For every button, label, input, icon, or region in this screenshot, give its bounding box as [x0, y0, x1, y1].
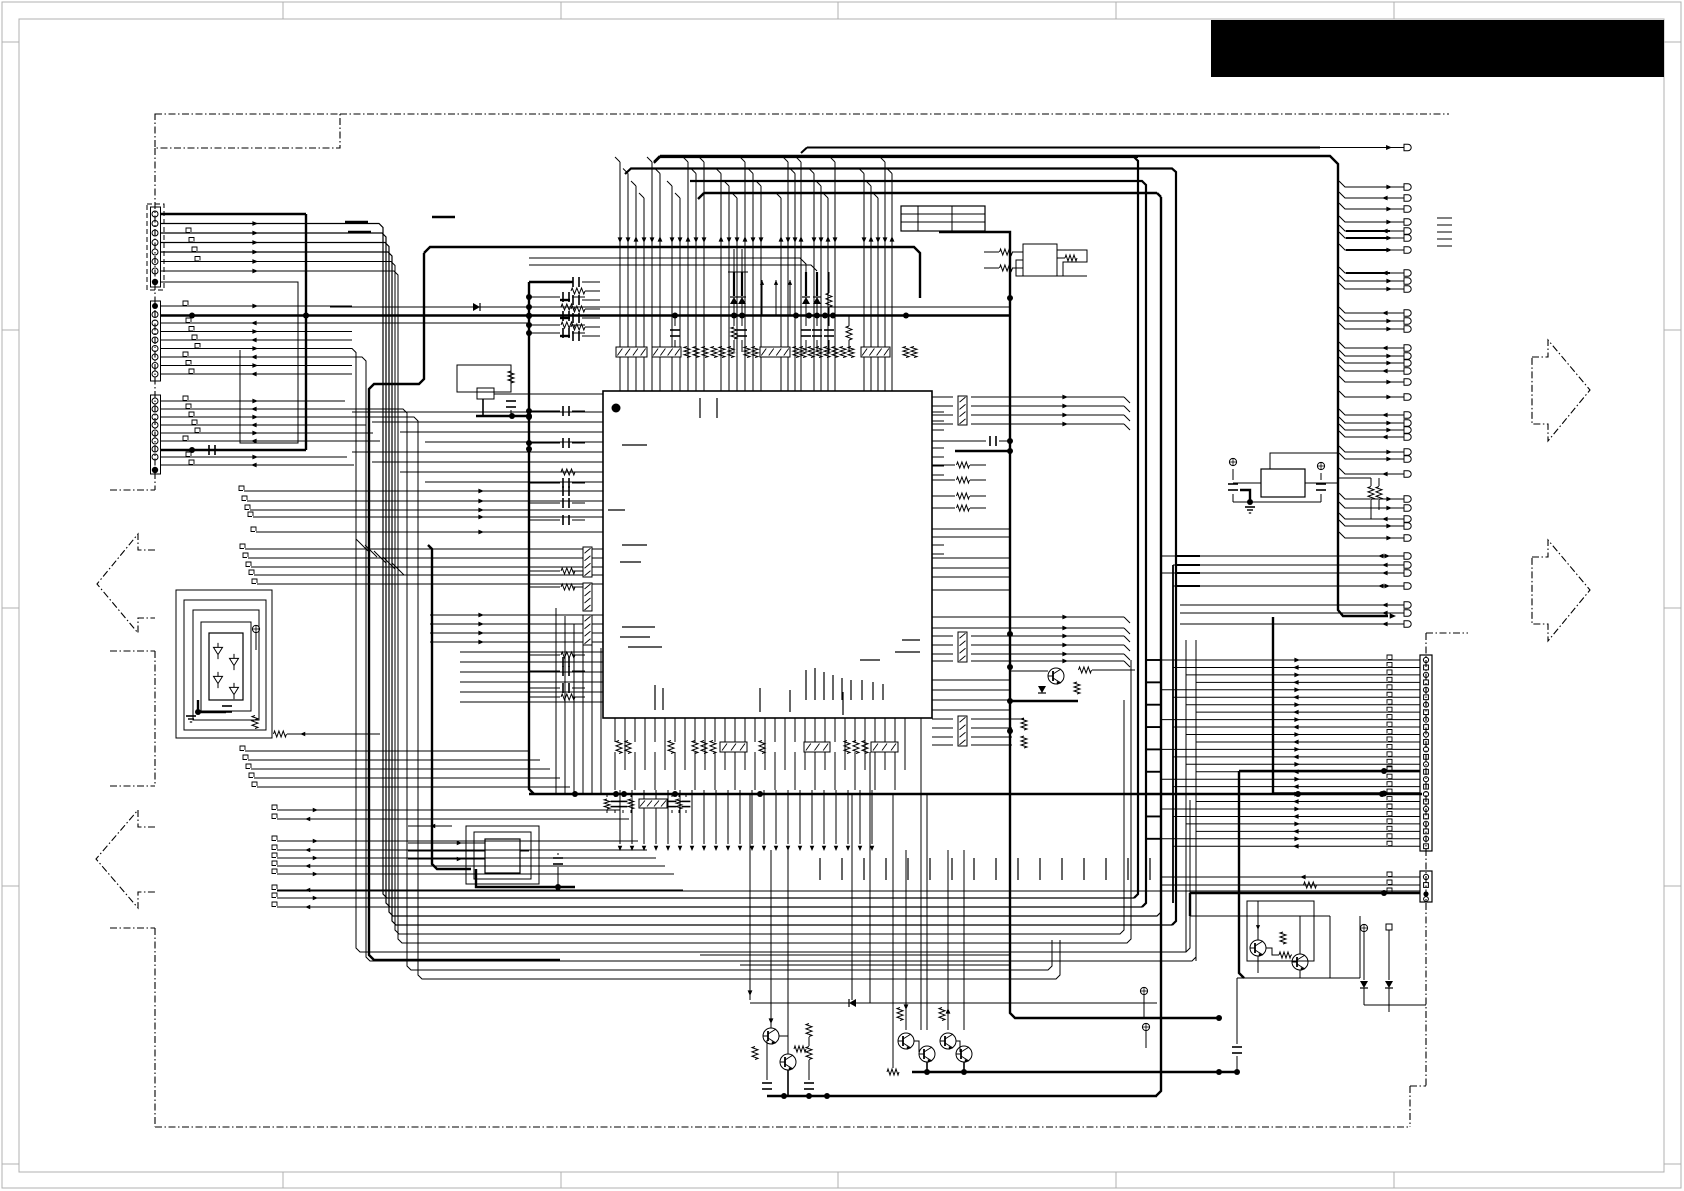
- long net y891: [277, 890, 1420, 892]
- wire CN3 thick: [161, 449, 306, 451]
- ground rail A thick: [767, 1095, 1157, 1097]
- cluster A feeder wires: [749, 794, 751, 1000]
- connector CN1 pins: [152, 211, 158, 217]
- transistor Q4: [919, 1046, 935, 1062]
- U2 resistor: [252, 716, 258, 729]
- board outline right edge: [1409, 1086, 1411, 1127]
- bus ring D thick riser: [625, 169, 1176, 926]
- thick bus x432: [428, 545, 471, 869]
- transistor Q6: [956, 1046, 972, 1062]
- ic U1 pin1 dot: [612, 404, 621, 413]
- board outline top-left box: [155, 114, 340, 148]
- pull resistors near terminals: [1368, 487, 1374, 500]
- resistor network RN7: [720, 742, 747, 752]
- gate ic U2 body: [209, 633, 243, 700]
- osc pwr right: [1317, 462, 1324, 469]
- top bus y193 thick: [704, 192, 1157, 194]
- wire right bottom join: [1388, 1005, 1390, 1012]
- rail y323 thin: [161, 322, 529, 324]
- feeder verticals: [1160, 556, 1162, 898]
- wires CN3: [161, 400, 345, 402]
- resistor network RNT4: [861, 347, 890, 357]
- osc gnd: [1240, 490, 1250, 502]
- CN4 left tap stubs: [1146, 659, 1161, 661]
- bus ring B thick riser: [690, 181, 1146, 907]
- cluster P2 right resistor: [846, 326, 852, 340]
- block arrow right 2: [1532, 540, 1590, 641]
- transistor Q1: [763, 1028, 779, 1044]
- title block: [1211, 20, 1664, 77]
- connector CN5 pins: [1423, 874, 1428, 879]
- resistor network RN6: [958, 716, 967, 746]
- rc netbox: [639, 799, 667, 808]
- cluster P1 top stubs: [733, 249, 735, 272]
- left cluster caps y330: [670, 329, 680, 331]
- ic U4 body: [485, 839, 520, 873]
- resistor network RN8: [804, 742, 830, 752]
- bottom arrows row: [618, 846, 623, 851]
- cluster P1 caps diodes: [733, 272, 735, 296]
- cluster C parts: [1280, 932, 1286, 944]
- right rows to ring: [1010, 616, 1124, 618]
- board outline top edge: [340, 113, 1449, 115]
- cluster C caps: [1232, 1046, 1242, 1048]
- bottom bundle continues: [614, 752, 616, 790]
- block arrow left 2: [96, 810, 155, 908]
- bottom right thick L: [1189, 893, 1191, 916]
- U2 resistor2: [274, 731, 287, 737]
- hook group G4: [272, 805, 277, 810]
- connector CN4 pins: [1423, 657, 1428, 662]
- transistor Q3: [898, 1033, 914, 1049]
- resistor network RN1: [583, 547, 592, 577]
- transistor Q5 area: [1048, 668, 1064, 684]
- transistor Q7: [1250, 940, 1266, 956]
- u3 sub box: [1023, 244, 1057, 276]
- bus ring D: [161, 252, 1172, 925]
- ic left rows low: [460, 651, 603, 653]
- cluster A resistors: [752, 1047, 758, 1060]
- resistor network RN4: [958, 396, 967, 425]
- table: [901, 206, 985, 231]
- resistor network RN5: [958, 632, 967, 662]
- bus x1161 thick: [1156, 197, 1161, 1096]
- bus ring F: [161, 271, 1131, 943]
- U2 ground: [198, 700, 226, 712]
- resistor network RNT2: [652, 347, 681, 357]
- CN4 thick wires: [1239, 770, 1420, 772]
- bus x529 thick: [529, 282, 534, 794]
- cluster C box: [1247, 901, 1314, 961]
- cluster P2 caps diodes: [805, 272, 807, 296]
- U4 right wire: [520, 850, 529, 852]
- ic U1 interior marks: [622, 444, 647, 446]
- wires CN2: [161, 305, 352, 307]
- resistor network RN3: [583, 615, 592, 645]
- ic right group RN5: [932, 635, 953, 637]
- cluster B resistors: [897, 1008, 903, 1021]
- right low resistors: [1021, 718, 1027, 730]
- ic bottom pins bundle: [614, 718, 616, 742]
- connector CN3 pins: [152, 398, 158, 404]
- ic U4 outline: [474, 832, 531, 879]
- connector CN3 outline: [151, 395, 161, 474]
- center verticals to bottom: [851, 794, 853, 1000]
- power rail upper thin: [330, 306, 1010, 308]
- xtal thick rail: [476, 415, 529, 417]
- board outline bottom edge: [155, 1126, 1410, 1128]
- right rows mid: [932, 528, 1010, 530]
- bus ring J: [161, 417, 1060, 979]
- thick elbow x1239: [1239, 771, 1244, 978]
- resistor network RN9: [871, 742, 898, 752]
- bus X1 thick vertical: [305, 214, 307, 450]
- xtal loop: [457, 365, 511, 392]
- terminal lower rows from left: [1161, 555, 1404, 557]
- wire CN1 gnd loop: [161, 282, 298, 443]
- resistor network RNT3: [760, 347, 790, 357]
- xtal resistor: [508, 371, 514, 383]
- connector CN2 pins: [152, 303, 158, 309]
- decoupling parts on x529: [529, 296, 560, 298]
- U4 hook wires upper: [408, 825, 452, 827]
- bus ring C bottom: [161, 197, 1161, 916]
- terminal extra ticks right: [1437, 217, 1452, 219]
- ic right cap row: [932, 440, 979, 442]
- rc pairs y804: [606, 794, 608, 797]
- bus ring I: [161, 409, 1052, 970]
- cluster B wires: [914, 1041, 919, 1052]
- board outline left edge: [154, 148, 156, 490]
- wires CN1: [252, 221, 258, 226]
- u3 resistors: [1000, 249, 1013, 255]
- transistor Q2: [780, 1054, 796, 1070]
- bus ring G: [161, 349, 1190, 953]
- bus left chamfers: [654, 156, 660, 162]
- wire CN1 pin1 thick: [161, 213, 306, 215]
- osc cap left: [1228, 483, 1238, 485]
- ic left rows G2: [240, 544, 245, 549]
- transistor Q8: [1292, 954, 1308, 970]
- osc pwr left: [1229, 458, 1236, 465]
- gate ic U2 gates: [214, 647, 223, 654]
- ic left rows RN3: [430, 614, 603, 616]
- cluster P2 below rail: [805, 316, 807, 326]
- q5 thick rail: [1010, 700, 1078, 702]
- cluster P1 below rail: [733, 316, 735, 326]
- verticals x556-601 to rail: [555, 608, 557, 793]
- ic right group RN6: [932, 718, 953, 720]
- transistor Q5b: [940, 1033, 956, 1049]
- bottom short stubs: [819, 858, 821, 880]
- cluster P1 arrows: [760, 280, 764, 285]
- bus x529 top stub: [529, 281, 573, 283]
- feeder y258: [529, 258, 806, 272]
- bus x1010 thick: [939, 232, 1219, 1018]
- misc verticals bottom: [1329, 916, 1331, 978]
- hook group G3: [240, 746, 245, 751]
- bus ring H: [161, 357, 1196, 961]
- U4 cap: [553, 857, 563, 859]
- ic left rows G1: [239, 486, 244, 491]
- osc loop wire: [1270, 453, 1338, 469]
- short bus labels: [345, 221, 368, 224]
- rail y1072 thick: [912, 1071, 1237, 1073]
- CN4 wires: [1387, 655, 1392, 660]
- cap-res stack above IC: [560, 281, 570, 283]
- U4 thick gnd L: [476, 869, 575, 887]
- x1010 cap: [989, 436, 991, 446]
- connector CN4 outline: [1420, 655, 1432, 851]
- bus rail y247 thick: [424, 247, 920, 298]
- ic U4 outline2: [466, 826, 539, 884]
- block arrow right 1: [1532, 340, 1590, 441]
- ic left rows upper: [352, 411, 603, 413]
- bus ring E: [161, 262, 1124, 935]
- terminal column wires: [1339, 181, 1404, 187]
- block arrow left 1: [97, 534, 155, 633]
- terminal thick marks: [1346, 230, 1390, 232]
- terminal bus thick: [660, 156, 1388, 616]
- frame zone ticks: [282, 2, 284, 19]
- xtal wire to ic: [494, 393, 603, 395]
- feeder y265: [529, 265, 817, 271]
- ic top pins bundle: [619, 162, 621, 391]
- rc pairs right: [671, 794, 673, 797]
- ic right stubs short: [932, 411, 944, 413]
- CN5 wires: [1387, 872, 1392, 877]
- connector CN1 outline: [147, 204, 164, 290]
- u3 loop: [1057, 250, 1087, 276]
- cluster A wires: [766, 1040, 768, 1080]
- xtal cap: [506, 400, 516, 402]
- thick elbow x1273: [1272, 617, 1274, 794]
- bottom resistors row: [616, 741, 622, 754]
- rail y794 thick: [529, 793, 1422, 795]
- U2 cap: [222, 705, 232, 707]
- cluster C bottom rail: [1237, 977, 1360, 979]
- cluster B feeders: [905, 850, 907, 1030]
- ic right group A: [932, 396, 953, 398]
- resistor network RNT1: [616, 347, 647, 357]
- U2 power symbol: [252, 625, 259, 632]
- ic right group low: [932, 679, 1010, 681]
- osc cap right: [1316, 483, 1326, 485]
- diode drops right: [1360, 924, 1367, 931]
- wire y1003 with diode: [750, 1002, 860, 1004]
- osc wires: [1233, 482, 1261, 484]
- bus ring A: [161, 224, 1134, 899]
- connector CN2 outline: [151, 301, 161, 381]
- U2 nested outlines: [201, 622, 251, 711]
- top row single resistors: [684, 347, 690, 358]
- terminal feeder top: [807, 147, 1320, 149]
- power rail VCC thick: [161, 314, 1011, 316]
- thick taps rows 556-586: [1176, 555, 1200, 557]
- x1010 thick stub2: [955, 450, 1010, 452]
- xtal box: [477, 388, 494, 399]
- osc body: [1261, 469, 1305, 497]
- cluster A caps: [762, 1082, 772, 1084]
- CN5 thick wire: [1190, 892, 1420, 894]
- staircase diagonals left: [356, 539, 368, 551]
- U4 left wires: [408, 842, 485, 844]
- connector CN5 outline: [1420, 871, 1432, 902]
- pwr symbols bottom: [1140, 987, 1147, 994]
- right resistor rows: [932, 464, 955, 466]
- thick jog bus x424: [369, 253, 560, 960]
- bus ring B: [161, 233, 1142, 907]
- ic U1 body: [603, 391, 932, 718]
- resistor network RN2: [583, 583, 592, 611]
- wire y955 bottom bundle: [700, 954, 1010, 956]
- u3 wires: [1057, 257, 1065, 259]
- cluster C wires: [1257, 901, 1259, 940]
- bus ring A thick riser: [660, 157, 1138, 898]
